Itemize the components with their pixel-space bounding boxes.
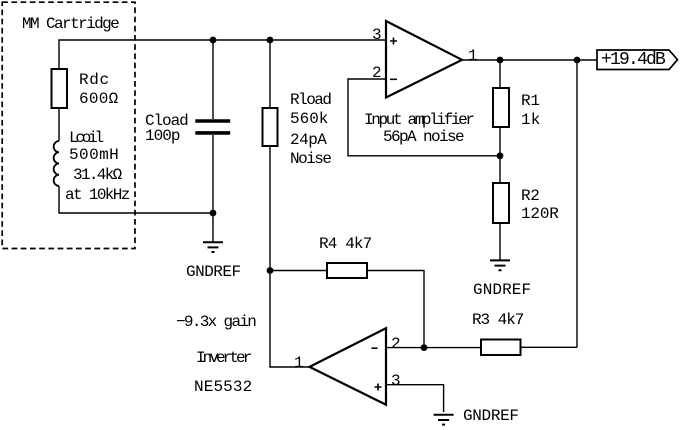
wire R4 left xyxy=(270,270,327,272)
junction node inv pin2 xyxy=(421,344,428,351)
label NE5532 xyxy=(194,379,252,395)
pin 3 U1 xyxy=(372,27,382,43)
label 600 ohm xyxy=(79,91,119,107)
wire R1 bottom xyxy=(499,127,501,156)
wire R1 top xyxy=(499,60,501,88)
resistor R4 xyxy=(327,263,367,278)
wire R2 bottom xyxy=(499,223,501,260)
label 560k xyxy=(290,111,328,127)
resistor Rload xyxy=(263,108,278,146)
resistor R1 xyxy=(493,88,509,127)
junction node output-flag xyxy=(574,57,581,64)
label 31.4k ohm xyxy=(73,167,121,183)
wire R3 right xyxy=(521,346,578,348)
wire Rload bottom to R4 junction xyxy=(269,146,271,271)
wire U1 pin2 feedback xyxy=(348,79,500,156)
wire Rdc to Lcoil xyxy=(58,108,60,141)
wire U2 pin2 to R3 xyxy=(386,347,481,349)
label GNDREF inverter xyxy=(463,408,519,424)
label Rload xyxy=(290,92,331,108)
wire U1 output xyxy=(462,59,597,61)
wire U2 pin3 to ground xyxy=(386,385,444,412)
inductor Lcoil xyxy=(54,141,59,186)
wire junction to inverter output xyxy=(270,271,310,368)
minus mark U2 xyxy=(372,347,378,349)
label 1k xyxy=(521,112,540,128)
wire Lcoil to bottom rail xyxy=(59,186,213,213)
label -9.3x gain xyxy=(176,314,255,330)
resistor Rdc xyxy=(52,69,68,108)
pin 2 U2 xyxy=(391,336,401,352)
wire R2 top xyxy=(499,156,501,183)
junction node output-R1 xyxy=(497,57,504,64)
pin 1 U1 xyxy=(468,48,478,64)
junction node top-Rload xyxy=(267,37,274,44)
wire output feedback right leg xyxy=(576,60,578,347)
wire Rload top branch xyxy=(269,40,271,108)
ground GNDREF inverter xyxy=(434,415,454,425)
resistor R2 xyxy=(493,183,509,223)
label 24pA xyxy=(290,132,326,148)
wire Cload bottom branch xyxy=(212,135,214,213)
label at 10kHz xyxy=(65,187,129,203)
op-amp U1 input amplifier xyxy=(386,21,462,98)
label Inverter xyxy=(196,350,249,366)
junction node top-Cload xyxy=(210,37,217,44)
label GNDREF cartridge xyxy=(186,264,241,280)
op-amp U2 inverter xyxy=(310,328,387,405)
minus mark U1 xyxy=(390,78,397,80)
wire top net from cartridge to op-amp pin 3 xyxy=(59,40,386,69)
ground GNDREF R2 xyxy=(490,260,510,270)
label R4 4k7 xyxy=(319,236,371,252)
resistor R3 xyxy=(481,340,521,356)
label 56pA noise xyxy=(383,129,463,145)
capacitor Cload xyxy=(195,121,230,133)
output flag +19.4dB xyxy=(597,50,678,70)
label GNDREF R2 xyxy=(473,282,531,298)
ground GNDREF cartridge xyxy=(203,242,223,252)
label Input amplifier xyxy=(364,112,473,128)
label Cload xyxy=(145,113,188,129)
plus mark U2 xyxy=(375,384,382,391)
label 120R xyxy=(521,206,559,222)
wire ground stub at cartridge rail xyxy=(212,213,214,242)
pin 1 U2 xyxy=(294,355,304,371)
label R3 4k7 xyxy=(472,312,523,328)
MM Cartridge dashed box xyxy=(2,2,135,248)
junction node Rload-R4 xyxy=(267,267,274,274)
label MM Cartridge xyxy=(22,16,118,32)
junction node R1-R2 feedback xyxy=(497,152,504,159)
label Noise xyxy=(290,151,331,167)
label Rdc xyxy=(79,72,110,88)
wire R4 right leg down xyxy=(367,271,424,348)
plus mark U1 xyxy=(390,38,397,45)
label +19.4dB xyxy=(601,51,664,69)
label 100p xyxy=(145,128,180,144)
pin 2 U1 xyxy=(372,65,382,81)
wire Cload top branch xyxy=(212,40,214,119)
label Lcoil xyxy=(69,130,101,146)
label R1 xyxy=(521,93,540,109)
label 500mH xyxy=(69,147,119,163)
pin 3 U2 xyxy=(391,373,401,389)
junction node rail-gnd xyxy=(210,210,217,217)
label R2 xyxy=(521,188,539,204)
